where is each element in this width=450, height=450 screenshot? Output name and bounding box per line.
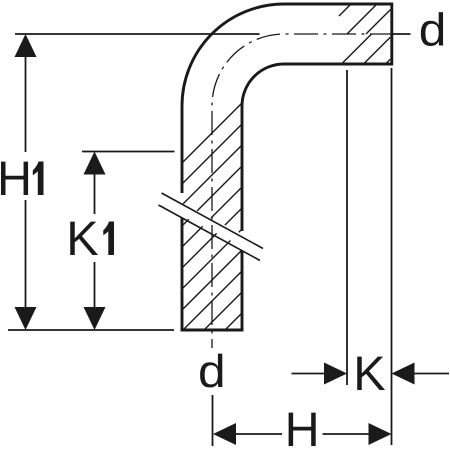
svg-text:H: H — [285, 403, 320, 450]
svg-text:H: H — [0, 152, 32, 206]
svg-text:K: K — [353, 347, 385, 401]
svg-text:K: K — [66, 212, 98, 266]
svg-text:d: d — [419, 4, 447, 56]
svg-text:d: d — [198, 345, 226, 397]
